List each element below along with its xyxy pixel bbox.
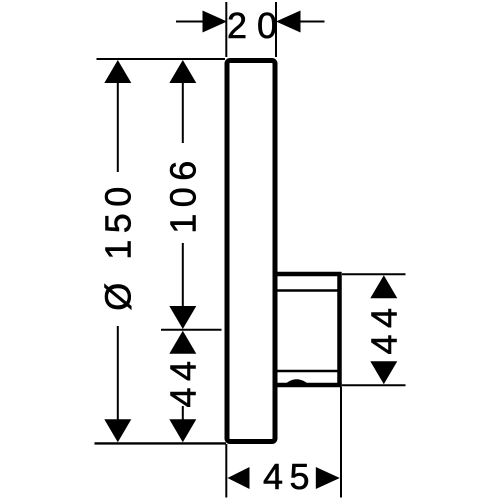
dim 45 arrow left [228, 467, 250, 489]
svg-text:44: 44 [163, 354, 204, 407]
dim 106 arrow up [169, 60, 196, 83]
valve body inner line bottom [277, 370, 338, 372]
dim 45 arrow right [316, 467, 340, 489]
valve body clip bump [287, 379, 308, 383]
dim 150 arrow up [104, 60, 131, 83]
dim 150 arrow down [104, 419, 131, 442]
dim 106 line lower [182, 243, 184, 308]
valve body top edge [276, 272, 342, 277]
dim 150 line lower [117, 326, 119, 421]
svg-text:44: 44 [363, 301, 404, 354]
valve body bottom edge [276, 383, 342, 388]
dim 44 left arrow down [169, 419, 196, 442]
dim 106 line upper [182, 82, 184, 143]
dim 44 right arrow up [370, 275, 397, 298]
plate outline (escutcheon side view) [227, 61, 275, 442]
dim 106 arrow down [169, 306, 196, 329]
svg-text:Ø 150: Ø 150 [98, 180, 139, 311]
top extension line (plate top) [97, 58, 226, 60]
dim 20 leader right [300, 21, 325, 23]
mid extension line (106/44 boundary) [161, 329, 222, 331]
dim 20 extension line right [275, 2, 277, 57]
dim 44 left line lower [182, 406, 184, 420]
dim 44 right extension bottom [342, 384, 406, 386]
bottom extension line (plate bottom) [95, 442, 227, 444]
dim 44 left arrow up [169, 331, 196, 354]
dim 20 arrow left [203, 11, 228, 33]
dim 44 right extension top [342, 273, 406, 275]
dim 20 extension line left [225, 2, 227, 57]
dim 20 arrow right [276, 11, 301, 33]
dim 150 line upper [117, 82, 119, 172]
dim 45 extension right [340, 387, 342, 498]
dim 44 right arrow down [370, 361, 397, 384]
svg-text:106: 106 [163, 154, 204, 234]
dim 45 extension left [225, 444, 227, 498]
svg-text:20: 20 [227, 5, 287, 46]
valve body inner line top [277, 289, 338, 291]
svg-text:45: 45 [263, 456, 316, 497]
dim 20 leader left [176, 21, 204, 23]
valve body right edge [337, 272, 342, 387]
